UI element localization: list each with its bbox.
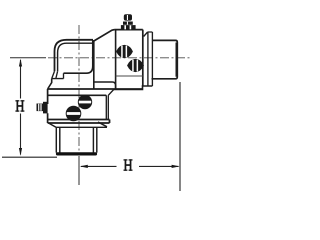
screw B (plug upper) — [78, 95, 91, 108]
centerline vertical (port axis) — [78, 25, 80, 154]
flange chamfer left — [49, 123, 57, 127]
flange bottom line — [56, 126, 107, 128]
block right edge — [142, 30, 144, 86]
arrow up (left dim) — [19, 59, 22, 67]
body joint line upper — [48, 88, 143, 90]
extension line right — [179, 82, 181, 191]
elbow joint face — [93, 41, 95, 89]
elbow arm bottom with fillet — [64, 40, 93, 73]
centerline horizontal (stud axis) — [10, 57, 46, 59]
body joint line lower — [48, 94, 107, 96]
dimension line left H — [20, 60, 22, 155]
arrow down (left dim) — [19, 148, 22, 156]
screw S1 (block face upper) — [117, 45, 133, 57]
port left wall thread — [56, 127, 60, 152]
block inner line — [116, 75, 143, 77]
body left shoulder — [48, 79, 52, 89]
stud end face thick band — [175, 43, 177, 77]
flange washer — [144, 32, 153, 86]
middle body right edge double — [106, 95, 108, 119]
sub-block lip — [95, 82, 116, 89]
middle body left edge — [47, 89, 49, 123]
label H left — [15, 100, 24, 112]
elbow inner wall — [58, 43, 93, 71]
screw S2 (block face lower) — [128, 59, 144, 71]
port right wall thread — [93, 127, 96, 152]
extension line bottom-left — [2, 156, 57, 158]
block bottom edge — [114, 86, 153, 90]
flange stack line 2 — [48, 120, 110, 124]
screw A (plug lower) — [66, 106, 81, 121]
block left edge — [115, 30, 117, 89]
arrow right (bottom dim) — [172, 165, 180, 168]
port bottom face — [58, 152, 96, 155]
top nipple cap — [121, 14, 136, 29]
stud outline — [152, 40, 178, 78]
arrow left (bottom dim) — [80, 165, 88, 168]
left grease nipple — [37, 102, 48, 114]
flange chamfer right — [98, 122, 107, 127]
elbow collar flare — [52, 71, 64, 78]
flange stack line 1 — [48, 119, 110, 121]
middle body right chamfer — [108, 90, 113, 96]
neck diagonal to block — [93, 30, 115, 42]
block top edge — [115, 29, 143, 31]
elbow outer profile — [55, 40, 94, 72]
label H bottom — [124, 159, 133, 171]
dimension line bottom H — [81, 165, 179, 167]
